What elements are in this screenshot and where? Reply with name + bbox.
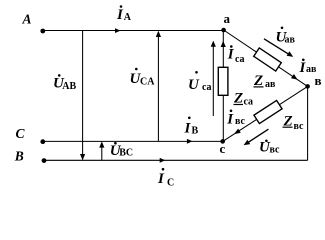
wire phase A line (43, 30, 224, 32)
voltage arrow shaft U_CA (157, 32, 159, 141)
svg-text:AB: AB (62, 81, 76, 92)
voltage arrow shaft U_AB (82, 31, 84, 160)
svg-text:вс: вс (235, 116, 246, 127)
svg-text:U: U (188, 77, 200, 93)
svg-text:A: A (22, 12, 32, 27)
arrowhead I_A (115, 28, 121, 33)
svg-text:CA: CA (140, 77, 155, 88)
svg-text:вс: вс (270, 144, 281, 155)
wire branch b-c (223, 86, 308, 141)
arrowhead U_ca (211, 41, 216, 47)
svg-text:ав: ав (306, 64, 317, 75)
arrowhead I_ca (221, 41, 226, 47)
voltage arrow shaft U_ca (212, 42, 214, 116)
wire B riser to node b (307, 86, 309, 160)
node a dot (221, 28, 226, 33)
svg-text:са: са (235, 54, 245, 65)
svg-text:c: c (220, 141, 226, 156)
arrowhead U_AB (80, 154, 85, 160)
svg-text:BC: BC (119, 148, 133, 159)
svg-text:I: I (157, 171, 165, 187)
svg-text:C: C (167, 177, 174, 188)
arrowhead I_bc (234, 129, 241, 135)
terminal C dot (40, 139, 45, 144)
arrowhead U_bc (delta) (244, 140, 251, 146)
svg-text:I: I (116, 7, 124, 23)
svg-text:I: I (184, 120, 192, 136)
node c dot (220, 139, 225, 144)
wire phase C line (43, 140, 223, 142)
svg-text:B: B (192, 126, 199, 137)
arrowhead U_ab (delta) (287, 51, 294, 57)
arrowhead I_ab (291, 74, 298, 80)
arrowhead I_B (187, 139, 193, 144)
svg-text:са: са (244, 97, 254, 108)
arrowhead U_CA (156, 31, 161, 37)
impedance box Z_ab (254, 48, 282, 71)
terminal A dot (40, 29, 45, 34)
voltage arrow shaft U_BC (101, 143, 103, 161)
terminal B dot (42, 158, 47, 163)
svg-text:I: I (226, 111, 234, 127)
svg-text:вс: вс (294, 121, 305, 132)
svg-text:B: B (14, 149, 24, 164)
svg-text:A: A (124, 12, 132, 23)
svg-text:са: са (202, 82, 212, 93)
svg-text:ав: ав (265, 79, 276, 90)
arrowhead I_C (160, 158, 166, 163)
wire branch a-c (222, 30, 224, 141)
svg-text:a: a (224, 11, 231, 26)
arrowhead U_BC (99, 141, 104, 147)
svg-text:в: в (315, 73, 322, 88)
svg-text:C: C (16, 126, 26, 141)
svg-text:ав: ав (285, 34, 296, 45)
impedance box Z_ca (218, 67, 228, 95)
wire branch a-b (224, 30, 308, 86)
node b dot (305, 84, 310, 89)
voltage arrow shaft U_bc (delta) (248, 129, 269, 143)
impedance box Z_bc (254, 100, 282, 123)
voltage arrow shaft U_ab (delta) (264, 39, 290, 55)
wire phase B line (44, 159, 308, 161)
svg-text:I: I (227, 47, 235, 63)
